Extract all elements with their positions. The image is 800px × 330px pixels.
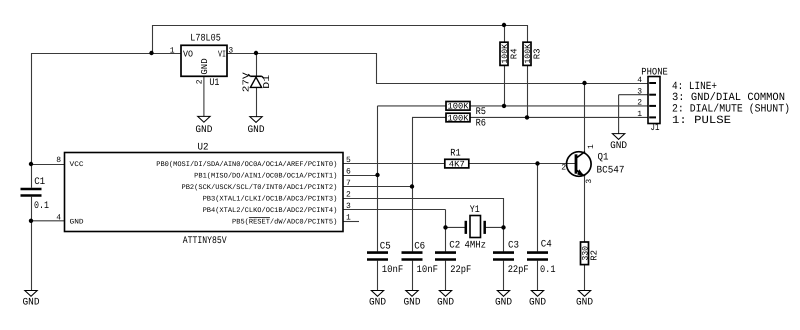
svg-text:U1: U1 <box>209 78 219 89</box>
svg-text:C2: C2 <box>449 240 460 251</box>
svg-text:PB0(MOSI/DI/SDA/AIN0/OC0A/OC1A: PB0(MOSI/DI/SDA/AIN0/OC0A/OC1A/AREF/PCIN… <box>156 160 337 169</box>
svg-text:100K: 100K <box>501 44 510 64</box>
svg-text:1: 1 <box>170 46 175 55</box>
svg-text:J1: J1 <box>651 123 660 134</box>
svg-text:Q1: Q1 <box>598 152 609 163</box>
svg-text:4K7: 4K7 <box>449 159 465 169</box>
svg-text:6: 6 <box>346 167 351 176</box>
svg-text:GND: GND <box>576 298 593 309</box>
svg-text:GND: GND <box>369 298 386 309</box>
svg-text:VI: VI <box>218 49 226 59</box>
svg-text:R4: R4 <box>510 48 520 59</box>
svg-text:R6: R6 <box>476 119 486 130</box>
svg-text:VCC: VCC <box>70 161 84 169</box>
svg-text:3: 3 <box>228 46 233 55</box>
svg-text:ATTINY85V: ATTINY85V <box>183 236 227 247</box>
svg-text:U2: U2 <box>198 142 209 153</box>
svg-text:BC547: BC547 <box>597 165 625 176</box>
svg-text:GND: GND <box>610 141 627 152</box>
svg-text:PHONE: PHONE <box>641 68 668 79</box>
svg-text:3: 3 <box>637 88 642 97</box>
svg-text:3: 3 <box>585 179 594 184</box>
svg-text:2: 2 <box>195 79 204 84</box>
svg-text:27V: 27V <box>241 72 251 93</box>
svg-text:100K: 100K <box>448 102 470 112</box>
svg-text:10nF: 10nF <box>417 265 439 276</box>
svg-text:2: 2 <box>346 190 351 199</box>
svg-text:PB4(XTAL2/CLKO/OC1B/ADC2/PCINT: PB4(XTAL2/CLKO/OC1B/ADC2/PCINT4) <box>203 206 338 215</box>
svg-text:100K: 100K <box>448 113 470 123</box>
svg-text:100K: 100K <box>524 44 533 64</box>
svg-text:L78L05: L78L05 <box>190 33 221 44</box>
svg-text:GND: GND <box>404 298 421 309</box>
svg-text:3: 3 <box>346 202 351 211</box>
svg-text:2: 2 <box>561 164 566 173</box>
svg-text:GND: GND <box>248 125 265 136</box>
svg-text:4: 4 <box>56 213 61 222</box>
svg-text:D1: D1 <box>262 75 272 89</box>
svg-text:GND: GND <box>529 298 546 309</box>
svg-text:C6: C6 <box>414 241 425 252</box>
svg-text:4: LINE+: 4: LINE+ <box>672 81 717 93</box>
svg-text:GND: GND <box>437 298 454 309</box>
svg-text:22pF: 22pF <box>450 265 471 276</box>
svg-text:3: GND/DIAL COMMON: 3: GND/DIAL COMMON <box>672 92 785 104</box>
svg-text:7: 7 <box>346 179 351 188</box>
svg-text:R1: R1 <box>450 148 460 159</box>
svg-text:PB5(RESET/dW/ADC0/PCINT5): PB5(RESET/dW/ADC0/PCINT5) <box>232 218 337 227</box>
svg-text:10nF: 10nF <box>382 265 404 276</box>
svg-text:VO: VO <box>183 49 193 59</box>
svg-text:4: 4 <box>637 76 642 85</box>
svg-text:1: 1 <box>587 144 596 149</box>
svg-text:0.1: 0.1 <box>34 201 49 212</box>
svg-text:1: PULSE: 1: PULSE <box>672 115 731 127</box>
svg-text:C5: C5 <box>380 241 391 252</box>
svg-text:GND: GND <box>195 125 212 136</box>
svg-text:R3: R3 <box>533 48 543 59</box>
svg-text:GND: GND <box>70 219 84 227</box>
svg-text:PB2(SCK/USCK/SCL/T0/INT0/ADC1/: PB2(SCK/USCK/SCL/T0/INT0/ADC1/PCINT2) <box>182 183 338 192</box>
svg-text:1: 1 <box>637 110 642 119</box>
svg-text:Y1: Y1 <box>470 205 480 216</box>
svg-text:C1: C1 <box>34 177 45 188</box>
svg-text:GND: GND <box>23 298 40 309</box>
svg-text:GND: GND <box>200 58 210 74</box>
svg-text:GND: GND <box>495 298 512 309</box>
svg-text:2: DIAL/MUTE (SHUNT): 2: DIAL/MUTE (SHUNT) <box>672 104 790 116</box>
svg-text:R5: R5 <box>476 107 486 118</box>
svg-text:R2: R2 <box>589 250 599 261</box>
svg-text:4MHz: 4MHz <box>465 240 487 251</box>
svg-text:5: 5 <box>346 156 351 165</box>
svg-text:22pF: 22pF <box>508 265 529 276</box>
svg-text:PB3(XTAL1/CLKI/OC1B/ADC3/PCINT: PB3(XTAL1/CLKI/OC1B/ADC3/PCINT3) <box>203 195 338 204</box>
svg-text:2: 2 <box>637 99 642 108</box>
svg-text:1: 1 <box>346 213 351 222</box>
svg-text:PB1(MISO/DO/AIN1/OC0B/OC1A/PCI: PB1(MISO/DO/AIN1/OC0B/OC1A/PCINT1) <box>194 172 337 181</box>
svg-text:C4: C4 <box>541 239 552 250</box>
svg-text:C3: C3 <box>508 240 519 251</box>
svg-text:8: 8 <box>56 156 61 165</box>
svg-text:0.1: 0.1 <box>540 265 556 276</box>
